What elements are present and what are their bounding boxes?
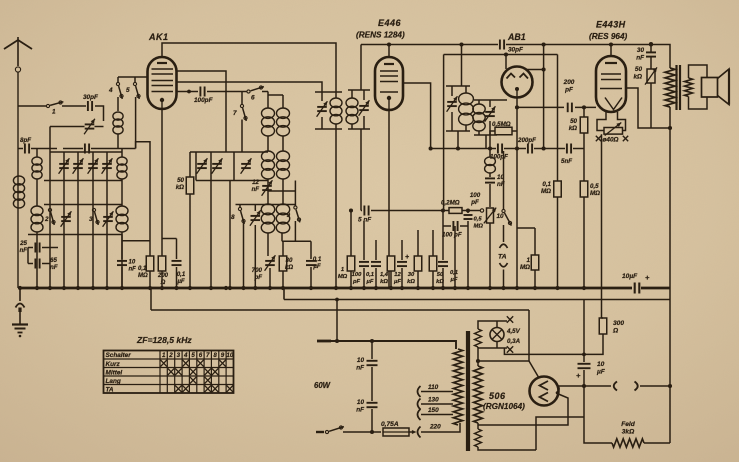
svg-text:nF: nF [356,406,365,413]
wire osc coil col x268 [267,92,269,257]
svg-text:TA: TA [106,387,114,394]
svg-text:700: 700 [252,267,263,274]
svg-text:3: 3 [177,352,181,359]
switch 7 [233,92,247,153]
capacitor 0.1uF row2 [438,226,458,288]
wire switch 6 to oscillator [262,91,268,93]
svg-text:nF: nF [50,264,58,271]
coil osc B3 [276,204,289,233]
pilot lamp loop bottom [478,346,513,352]
label E446 [378,18,402,28]
svg-text:0,1: 0,1 [313,256,322,263]
svg-text:30: 30 [637,47,645,54]
svg-text:100: 100 [352,272,362,278]
wire misc col x455 [454,226,456,288]
wire coil column x122 [121,179,123,288]
switch 9 [286,181,300,242]
filament rheostat 40ohm [596,112,628,144]
pilot lamp loop top [478,316,513,329]
wire anode AVC line y54 [444,54,558,56]
trimmer capacitor T3 [88,158,99,174]
wire HV top to bus [476,359,529,363]
wire osc rail 4 [282,240,311,242]
jack output right [635,382,671,391]
svg-text:10: 10 [497,213,505,220]
junction on ground bus x=517 [515,286,519,290]
wire HV bottom loop [478,393,568,425]
svg-text:30: 30 [408,272,415,278]
tap 130 [418,397,454,410]
svg-text:MΩ: MΩ [338,274,348,280]
wire bias rail [122,240,150,242]
svg-text:Mittel: Mittel [106,370,123,377]
junction on ground bus x=78 [76,286,80,290]
capacitor C 10uF electrolytic in ground bus [622,273,670,294]
wire secondary bottom [689,97,708,110]
junction mains bottom [370,430,374,434]
switch 4 [108,77,123,111]
wire AK1 grid left [118,76,148,78]
svg-text:25: 25 [19,240,27,247]
power transformer core [466,331,470,451]
svg-text:110: 110 [428,384,439,391]
coil L (below switch 4) [113,112,123,149]
wire osc coil col x283 [282,95,283,241]
svg-text:130: 130 [428,397,439,404]
junction on ground bus x=402 [400,286,404,290]
svg-text:30pF: 30pF [83,94,99,101]
wire 30pF to column [95,106,104,121]
capacitor 65nF [28,257,58,271]
capacitor 200pF grid [563,79,575,112]
coil osc B1 [277,108,290,136]
junction on ground bus x=162 [160,286,164,290]
svg-text:10: 10 [357,357,365,364]
wire tank D down [485,135,487,149]
svg-text:2: 2 [44,216,49,223]
junction on ground bus x=336 [334,286,338,290]
junction on ground bus x=584 [582,286,586,290]
svg-text:0,75A: 0,75A [381,421,399,428]
label RES 964 [589,32,627,41]
svg-text:5nF: 5nF [561,158,572,165]
power transformer primary winding [453,349,462,425]
svg-text:5 nF: 5 nF [358,217,372,224]
junction on ground bus x=107 [105,286,109,290]
svg-text:E443H: E443H [596,20,626,30]
label RENS 1284 [356,31,405,40]
wire diode feed column [542,45,546,151]
svg-text:0,1: 0,1 [542,181,551,188]
wire AB1 right plate stub [527,69,544,71]
mains switch [325,426,381,434]
junction on ground bus x=455 [453,286,457,290]
svg-text:100pF: 100pF [194,97,214,104]
wire osc bot link [268,190,295,192]
label TA [498,254,507,261]
svg-text:pF: pF [253,274,262,281]
svg-text:0,1: 0,1 [138,266,147,272]
speaker secondary winding [685,78,693,97]
junction on ground bus x=255.3 [253,286,257,290]
label 0.3A [507,338,521,345]
junction on ground bus x=211 [209,286,213,290]
svg-text:10: 10 [357,399,365,406]
trimmer capacitor osc4 [250,205,261,289]
svg-text:Ω: Ω [612,328,619,335]
capacitor 5nF AF [358,206,372,224]
svg-text:kΩ: kΩ [380,279,388,285]
junction on ground bus x=230 [228,286,232,290]
jack TA lower [500,263,508,267]
wire HV top into 506 [529,361,539,378]
wire grid line 2 [575,105,596,109]
coil L5 [116,206,128,232]
loudspeaker cone [718,69,730,105]
junction top cap [609,42,653,46]
svg-text:TA: TA [498,254,507,261]
trimmer capacitor osc1 [197,158,208,174]
svg-text:kΩ: kΩ [285,264,293,271]
capacitor 200pF det [517,137,536,154]
wire AB1 cathode [516,98,518,132]
svg-text:0,5: 0,5 [590,183,599,190]
junction on ground bus x=490 [488,286,492,290]
resistor 300ohm [599,318,624,335]
capacitor antenna series 2 [63,144,136,154]
svg-text:5: 5 [191,352,195,359]
wire osc rail 2 [196,180,268,182]
resistor 0.5Mohm AB1 [490,121,517,149]
svg-text:nF: nF [356,364,365,371]
svg-text:µF: µF [366,279,374,285]
label RGN1064 [483,402,525,411]
svg-text:150: 150 [428,407,439,414]
svg-text:Schalter: Schalter [106,352,132,359]
svg-text:ZF=128,5 kHz: ZF=128,5 kHz [136,335,192,345]
wire det seg4 [573,148,584,150]
wire AVC to tank C [461,45,463,87]
IF transformer 1 tank A [315,92,342,129]
wire osc top link [268,94,283,96]
junction on ground bus x=283 [281,286,285,290]
power transformer filament winding 4V [475,329,482,347]
wire AK1 line y91 [177,90,199,94]
trimmer capacitor antenna [50,119,104,149]
svg-text:kΩ: kΩ [407,279,415,285]
switch 3 [89,208,99,225]
capacitor 10nF mains lower [356,399,377,434]
resistor 50kohm row [429,230,444,288]
capacitor 0.1uF osc [306,241,322,288]
wire E446 anode [403,83,433,151]
svg-text:Feld: Feld [621,421,636,428]
junction on ground bus x=50 [48,286,52,290]
capacitor 0.1uF row [366,240,381,288]
label 60W [314,381,331,390]
junction AF [441,208,470,212]
capacitor 10nF [117,235,136,289]
svg-text:6: 6 [199,352,203,359]
svg-text:4: 4 [108,87,113,94]
junction on ground bus x=20 [18,286,22,290]
resistor 1Mohm AF [517,228,539,288]
svg-text:4: 4 [183,352,188,359]
wire osc col x196 [195,152,197,181]
jack output left [614,382,617,391]
svg-text:12: 12 [394,272,401,278]
svg-text:4,5V: 4,5V [506,328,521,335]
junction on ground bus x=226 [224,286,228,290]
svg-text:+: + [645,273,650,282]
coil osc A1 [262,108,275,136]
svg-text:pF: pF [352,279,361,285]
wire mains top [317,341,456,349]
svg-text:0,5: 0,5 [474,217,483,223]
svg-text:60W: 60W [314,381,331,390]
svg-text:0,3A: 0,3A [507,338,521,345]
triode tube E446 [375,57,403,110]
svg-text:(RGN1064): (RGN1064) [483,402,525,411]
wire tuner rail bottom [28,234,122,236]
coil osc A3 [261,204,274,233]
resistor 50kohm [176,152,194,288]
wire rectifier filament loop [478,417,584,450]
jack TA upper [500,244,508,248]
svg-text:pF: pF [564,86,574,93]
wire tank B down [360,129,362,211]
wire 25nF-65nF link [27,248,29,264]
field coil Feld 3kohm [612,421,670,447]
wire fuse to tap [409,430,417,434]
label AK1 [148,32,169,42]
IF transformer 2 tank C [446,86,473,131]
svg-text:30pF: 30pF [508,47,524,54]
svg-text:200: 200 [157,273,169,279]
svg-text:10: 10 [129,260,136,266]
pentode tube AK1 [148,57,177,109]
svg-text:Lang: Lang [106,378,121,385]
wire lower bus [151,309,529,311]
junction det [456,146,519,150]
wire tone down [650,83,652,128]
coil osc B2 [277,151,290,179]
power transformer rectifier filament winding [475,423,482,447]
variable resistor 50kohm tone [633,57,657,85]
capacitor 100pF [194,87,214,105]
junction on ground bus x=376 [374,286,378,290]
wire AVC drop x443 [443,55,445,211]
svg-text:MΩ: MΩ [520,264,530,271]
speaker driver [702,78,718,98]
wire tuner rail mid [44,180,122,182]
tap 150 [418,407,454,420]
label 4.5V [506,328,521,335]
wire E443H top cap [610,45,612,57]
svg-text:3kΩ: 3kΩ [622,429,635,436]
wire E446 cathode [388,110,390,288]
svg-text:1: 1 [527,257,531,264]
svg-text:1,4: 1,4 [380,272,389,278]
junction on ground bus x=270 [268,286,272,290]
wire AK1 cathode down [161,109,163,256]
junction on ground bus x=311 [309,286,313,290]
resistor 1Mohm row [338,208,355,288]
svg-text:nF: nF [129,267,137,273]
wire tuner column x=107 [106,152,108,288]
svg-text:200pF: 200pF [517,137,536,144]
wire 100pF to switch 6 [207,91,247,93]
wire AK1 top cap to IFT1 [162,43,336,92]
svg-text:µF: µF [312,263,321,270]
wire AK1 screen to IFT1 [177,82,323,92]
wire AVC line y44 [361,42,498,46]
power transformer HV winding [474,347,483,423]
switch position table [104,351,234,394]
wire osc col x230 [229,181,231,289]
svg-text:100: 100 [470,192,481,199]
junction on ground bus x=503.5 [501,286,505,290]
svg-text:kΩ: kΩ [569,125,577,132]
capacitor 100pF bypass [442,211,468,239]
capacitor 0.5Mohm-labelled [464,211,484,230]
svg-text:50: 50 [570,118,577,125]
capacitor 12uF row [393,240,409,288]
wire bias jog [136,142,150,256]
wire cathode link [162,238,177,240]
tap 110 [418,384,454,397]
svg-text:220: 220 [429,424,441,431]
svg-text:10: 10 [597,361,605,368]
svg-text:0,1: 0,1 [450,270,458,276]
svg-text:2: 2 [168,352,173,359]
wire smoothing to field [584,386,612,443]
wire mains switch stub [316,431,324,433]
wire sw2 column [49,149,51,289]
trimmer capacitor T4 [102,158,113,174]
svg-text:pF: pF [470,199,479,206]
capacitor 0.1uF [172,239,186,289]
resistor 50kohm grid [569,107,588,133]
coil L3 [31,206,43,232]
wire det seg3 [534,148,565,150]
wire tuner column x=78 [77,152,79,288]
junction on ground bus x=64 [62,286,66,290]
resistor 0.1Mohm [138,256,154,288]
trimmer capacitor 700pF [252,255,276,288]
wire pot down [489,223,491,288]
svg-text:kΩ: kΩ [633,73,642,80]
output transformer core [677,65,681,110]
resistor 0.2Mohm [441,200,480,214]
coil RF choke [485,149,496,174]
svg-text:12: 12 [252,179,259,186]
svg-text:Kurz: Kurz [106,361,121,368]
duo-diode tube AB1 [502,67,533,98]
wire tank C down [457,131,459,149]
svg-text:50: 50 [635,66,643,73]
junction on ground bus x=243.5 [241,286,245,290]
coil antenna primary [13,176,24,208]
trimmer capacitor T6 [103,211,114,227]
junction on ground bus x=190 [188,286,192,290]
wire anode line [558,384,611,388]
wire AK1 grid right to oscillator [177,71,227,152]
pilot lamp 4.5V 0.3A [490,321,504,348]
svg-text:506: 506 [489,391,506,401]
svg-text:AB1: AB1 [507,32,526,42]
coil L4 [117,157,127,179]
wire AB1 cathode down [516,131,518,288]
junction on ground bus x=37 [35,286,39,290]
resistor 30kohm [279,241,293,288]
junction on ground bus x=557.5 [555,286,559,290]
svg-text:+: + [576,371,581,380]
svg-text:300: 300 [613,320,624,327]
wire E443H anode link [626,88,670,128]
svg-text:nF: nF [636,54,645,61]
capacitor 8pF [18,137,57,154]
capacitor 10nF mains upper [356,341,377,401]
trimmer capacitor osc2 [212,158,223,174]
svg-text:MΩ: MΩ [474,223,484,229]
svg-text:50: 50 [177,177,184,184]
svg-text:10: 10 [226,352,233,359]
trimmer capacitor T2 [73,158,84,174]
wire osc rail 3 [236,204,296,206]
label ZF=128.5 kHz [136,335,192,345]
rectifier tube 506 [530,377,560,406]
wire AVC column x557 [557,55,559,182]
wire after 30pF [506,42,670,68]
junction on ground bus x=351 [349,286,353,290]
wire tuner column x=64 [63,152,65,288]
wire tuner rail top [50,151,122,153]
wire misc col x468 [467,226,469,288]
trimmer capacitor osc3 [241,158,252,174]
svg-text:1: 1 [162,352,166,359]
IF transformer 1 tank B [346,90,370,129]
antenna [4,37,32,288]
svg-text:0,2MΩ: 0,2MΩ [441,200,460,207]
wire det seg2 [504,148,526,150]
capacitor 10uF smoothing [576,361,606,386]
svg-text:200: 200 [563,79,575,86]
wire rectified HT feed [601,134,603,318]
svg-text:5: 5 [126,87,130,94]
wire to 30pF [62,105,86,107]
wire primary bottom [668,107,672,300]
wire AB1 left plate feed [504,52,508,69]
fuse 0.75A [381,421,409,436]
svg-text:µF: µF [596,369,606,376]
junction on ground bus x=176.5 [174,286,178,290]
switch 10 [502,151,512,242]
junction on ground bus x=364 [362,286,366,290]
wire osc col x211 [210,152,212,288]
wire tank A down [335,129,337,288]
junction on ground bus x=418 [416,286,420,290]
svg-text:nF: nF [19,247,27,254]
trimmer capacitor T5 [61,211,72,227]
svg-text:7: 7 [206,352,210,359]
capacitor 5nF [561,144,572,166]
junction on ground bus x=150 [148,286,152,290]
svg-text:8pF: 8pF [20,137,31,144]
junction on ground bus x=93 [91,286,95,290]
svg-text:MΩ: MΩ [590,190,600,197]
svg-text:MΩ: MΩ [541,188,551,195]
